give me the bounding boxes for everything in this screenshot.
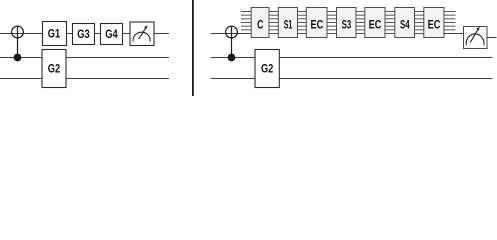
wire out of final measurement [487,37,497,39]
wire q1 right (to encoder) [211,33,252,35]
svg-text:G2: G2 [48,62,61,76]
gate G3 [73,24,95,45]
svg-text:EC: EC [311,19,324,32]
gate S4 [395,8,415,38]
gate EC 2 [365,8,385,38]
wire CNOT control-target link right [231,26,233,57]
CNOT target (xor) right [226,26,238,38]
encoded bundle before C [241,12,251,30]
encoded bundle EC to S3 [327,12,337,34]
svg-text:G2: G2 [261,62,274,76]
gate G1 [43,22,67,46]
panel divider [192,0,194,96]
wire q3 right [211,78,493,80]
svg-text:G1: G1 [48,26,61,40]
wire q2 right [211,57,493,59]
svg-text:EC: EC [369,19,382,32]
measurement meter right [464,27,488,49]
encoded bundle after EC 3 [444,12,456,30]
measurement meter left [130,22,154,46]
encoded bundle C to S1 [269,12,278,34]
gate C (encoder) [251,8,269,38]
svg-text:S1: S1 [284,19,293,32]
gate G2 (two-qubit) right [255,50,279,88]
wire q3 left [0,78,169,80]
gate EC 1 [306,8,327,38]
svg-text:G4: G4 [105,27,118,41]
encoded bundle S1 to EC [298,12,307,34]
svg-text:EC: EC [428,19,441,32]
gate G2 (two-qubit) left [42,50,66,88]
wire q2 left [0,57,169,59]
wire CNOT control-target link left [17,26,19,57]
gate S3 [337,8,357,38]
wire into final measurement [444,33,464,35]
CNOT control dot right [228,54,236,62]
gate EC 3 [424,8,444,38]
encoded bundle S4 to EC [415,12,424,34]
svg-text:S3: S3 [342,19,352,32]
svg-text:G3: G3 [77,27,90,41]
wire q1 left [0,33,169,35]
CNOT control dot left [14,54,22,62]
encoded bundle S3 to EC [356,12,365,34]
svg-text:S4: S4 [400,19,410,32]
gate S1 [278,8,297,38]
CNOT target (xor) left [12,26,24,38]
encoded bundle EC to S4 [385,12,395,34]
svg-text:C: C [257,19,264,32]
gate G4 [101,24,123,45]
